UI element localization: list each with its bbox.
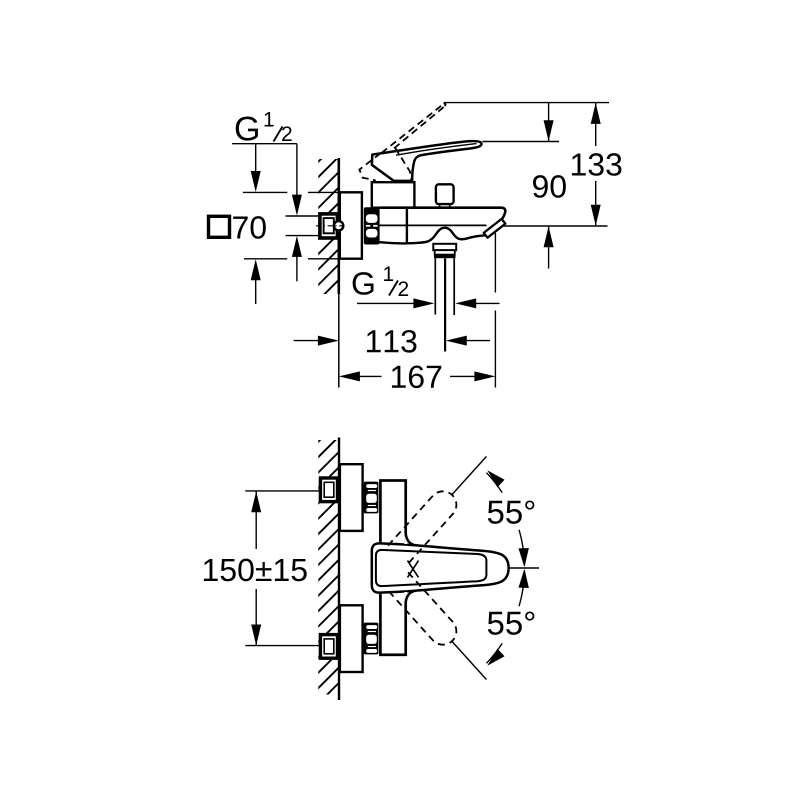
lower escutcheon (plan)	[340, 605, 363, 672]
value label 150±15	[204, 559, 307, 582]
dimension: spout outlet reference line	[504, 225, 608, 227]
dashed lever rotated up 55deg (plan)	[388, 486, 462, 564]
solid lever handle (plan)	[372, 543, 509, 592]
upper escutcheon (plan)	[340, 464, 363, 531]
dimension 133	[595, 103, 597, 226]
shower hose	[435, 258, 454, 351]
wall hatching (side view)	[308, 130, 350, 341]
shower hose connector	[433, 244, 456, 258]
wall line (side view)	[337, 158, 340, 294]
dashed lever rotated down 55deg (plan)	[388, 572, 462, 650]
label G 1/2 (hose outlet)	[353, 272, 374, 295]
value label 113	[367, 330, 417, 353]
lever handle open position (dashed)	[359, 104, 444, 180]
55deg extension line lower	[452, 642, 486, 680]
pivot cross mark	[408, 561, 419, 578]
lower concealed fitting (plan)	[320, 635, 337, 659]
dimension 90	[548, 103, 550, 269]
55deg arc upper	[519, 530, 524, 565]
dimension: max height reference line	[444, 102, 609, 104]
label square-70	[209, 216, 230, 237]
upper S-union nut (plan)	[364, 482, 379, 514]
upper concealed fitting (plan)	[320, 478, 337, 502]
value label 55 degrees lower	[488, 611, 535, 634]
value label 90	[533, 175, 566, 198]
value label 133	[572, 153, 622, 176]
dimension 70 lower arrows	[251, 259, 261, 280]
leader arrows from G 1/2 label	[255, 144, 257, 174]
faucet body (side view)	[380, 208, 506, 220]
value label 167	[392, 365, 441, 388]
mixer body bar (plan)	[380, 481, 405, 655]
55deg extension line upper	[452, 457, 486, 495]
wall hatching (plan view)	[308, 410, 350, 745]
escutcheon extension lines	[243, 192, 340, 258]
union nut (side view)	[364, 207, 380, 244]
supply centerlines / 150 extension lines	[245, 490, 320, 492]
wall line (plan view)	[338, 438, 340, 701]
dimension: handle top extension line	[483, 141, 560, 143]
G 1/2 hose dimension arrows	[357, 302, 417, 304]
concealed union fitting behind wall	[316, 214, 345, 238]
lever handle (closed, side view)	[372, 141, 482, 181]
wall escutcheon plate (side view)	[340, 192, 362, 258]
dimension 150 plus-minus 15	[255, 491, 257, 646]
dimension 113	[294, 340, 322, 342]
diverter knob	[436, 184, 454, 207]
55deg arc lower	[519, 571, 524, 606]
label G 1/2 (wall unions)	[236, 117, 258, 141]
cartridge housing	[372, 182, 415, 208]
handle tip tick line	[510, 567, 540, 569]
lower S-union nut (plan)	[364, 623, 379, 655]
body bar to handle fillets	[404, 534, 415, 603]
spout aerator outlet	[484, 219, 506, 238]
supply pipe (behind wall)	[286, 215, 321, 217]
dimension 167	[494, 233, 496, 388]
value label 55 degrees upper	[488, 500, 535, 523]
value label 70	[233, 216, 266, 239]
